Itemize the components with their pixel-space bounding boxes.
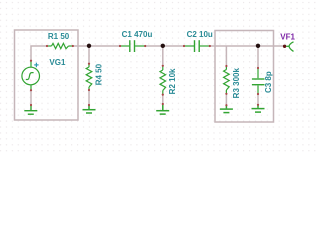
svg-text:C2 10u: C2 10u [187,30,213,39]
pin C1-2 [144,45,146,47]
pin ground R2 [162,103,164,105]
wire VG1 top to R1 left [31,46,47,61]
ground (under R3) [220,106,233,113]
wire node C down to R3 [225,46,227,66]
svg-text:R4 50: R4 50 [94,63,103,85]
wire C3 bottom to ground [257,94,259,105]
resistor R1 [47,43,73,48]
wire node B down to R2 [162,46,164,66]
pin C3-2 [257,93,259,95]
wire node A down to R4 [88,46,90,64]
resistor R2 [160,66,166,94]
pin R3-2 [225,93,227,95]
pin ground R3 [225,104,227,106]
pin R2-1 [162,65,164,67]
svg-text:C3 8p: C3 8p [264,71,273,93]
pin ground VG1 [30,104,32,106]
polarity plus mark [34,63,38,67]
resistor R4 [86,64,92,90]
wire C2 right to VF1 [210,45,285,47]
box (source group enclosure, left) [15,30,79,120]
ground (under C3) [252,105,265,112]
pin C2-1 [183,45,185,47]
wire VG1 bottom to ground [30,90,32,105]
svg-text:VG1: VG1 [49,58,66,67]
ground (under R2) [156,105,169,115]
ground (under VG1) [24,106,37,115]
pin C3-1 [257,67,259,69]
pin VG1 - [30,89,32,91]
capacitor C2 [184,40,210,52]
capacitor C3 [252,68,265,93]
pin VG1 + [30,60,32,62]
wire R4 bottom to ground [88,90,90,105]
pin ground C3 [257,104,259,106]
pin R3-1 [225,65,227,67]
voltage pin VF1 [283,45,286,48]
wire R1 right to C1 left [73,45,120,47]
junction node B [161,44,165,48]
source VG1 [22,61,40,90]
pin ground R4 [88,104,90,106]
svg-text:VF1: VF1 [280,33,295,42]
pin R4-1 [88,63,90,65]
junction node D [256,44,260,48]
capacitor C1 [120,40,145,52]
svg-text:C1 470u: C1 470u [122,30,153,39]
ground (under R4) [83,106,96,114]
wire node D down to C3 [257,46,259,68]
wire R2 bottom to ground [162,95,164,104]
pin R2-2 [162,94,164,96]
pin R4-2 [88,89,90,91]
svg-text:R3 300k: R3 300k [232,68,241,99]
pin C2-2 [209,45,211,47]
pin R1-1 [46,45,48,47]
wire C1 right to C2 left [145,45,184,47]
wire R3 bottom to ground [225,94,227,105]
pin R1-2 [72,45,74,47]
junction node A [87,44,91,48]
svg-text:R1 50: R1 50 [48,32,70,41]
box (load group enclosure, right) [215,31,274,123]
resistor R3 [224,67,230,94]
svg-text:R2 10k: R2 10k [168,68,177,94]
pin C1-1 [119,45,121,47]
